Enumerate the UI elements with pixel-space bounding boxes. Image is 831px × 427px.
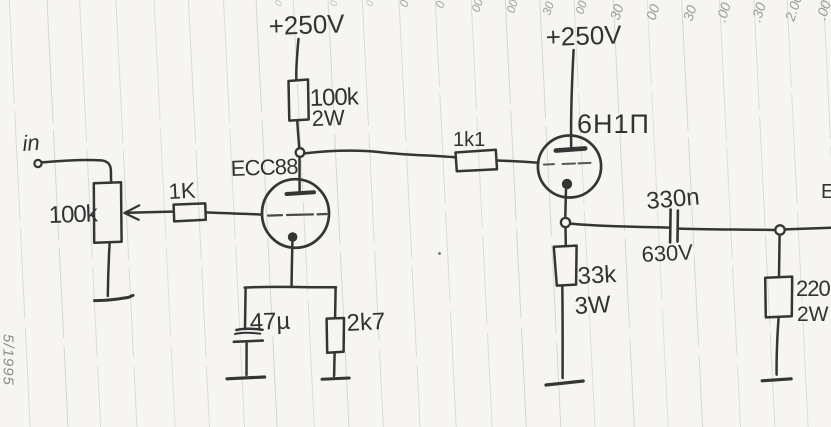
svg-text:2W: 2W	[797, 303, 829, 326]
svg-text:2W: 2W	[311, 105, 345, 131]
svg-text:1K: 1K	[168, 178, 197, 204]
svg-text:+250V: +250V	[268, 8, 346, 41]
svg-text:+250V: +250V	[545, 19, 623, 52]
svg-text:33k: 33k	[577, 261, 618, 290]
svg-text:630V: 630V	[641, 239, 694, 267]
svg-text:1k1: 1k1	[453, 129, 485, 151]
svg-text:E: E	[821, 181, 831, 203]
svg-text:6Н1П: 6Н1П	[577, 109, 650, 139]
svg-text:3W: 3W	[574, 291, 612, 320]
svg-text:100k: 100k	[48, 200, 99, 229]
svg-text:5/1995: 5/1995	[0, 334, 17, 386]
svg-text:ECC88: ECC88	[230, 154, 298, 181]
svg-text:220k: 220k	[796, 276, 831, 301]
svg-text:2k7: 2k7	[346, 308, 386, 337]
svg-text:in: in	[22, 130, 41, 156]
svg-text:330n: 330n	[645, 183, 701, 215]
svg-text:47µ: 47µ	[249, 308, 291, 336]
